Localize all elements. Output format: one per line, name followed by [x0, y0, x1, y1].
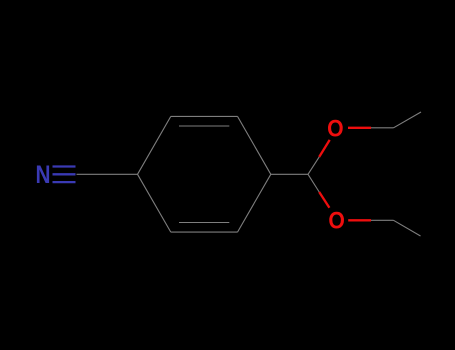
bond CH to top O (gray half): [308, 157, 319, 174]
svg-text:O: O: [327, 116, 344, 143]
ring edge C1-C2 upper-left: [138, 116, 171, 174]
bond bottom CH2 to CH3: [394, 220, 421, 236]
aromatic inner line bottom: [179, 222, 229, 224]
aromatic inner line top: [179, 125, 229, 127]
svg-text:N: N: [36, 161, 51, 189]
bond top O to CH2 (red half): [348, 127, 371, 129]
svg-text:O: O: [328, 208, 345, 235]
ring edge C3-C4 upper-right: [238, 116, 271, 174]
ring edge C4-C5 lower-right: [238, 174, 271, 232]
bond CH to top O (red half): [319, 140, 330, 157]
bond top O to CH2 (gray half): [371, 127, 394, 129]
bond nitrile C to ring C1: [77, 173, 138, 175]
bond top CH2 to CH3: [394, 112, 422, 128]
bond ring C4 to acetal CH: [271, 173, 308, 175]
bond bottom O to CH2 (gray half): [371, 219, 394, 221]
bond bottom O to CH2 (red half): [348, 219, 371, 221]
bond CH to bottom O (red half): [319, 192, 329, 208]
ring edge C6-C1 lower-left: [138, 174, 171, 232]
ring edge C2-C3 top: [171, 115, 238, 117]
benzene ring: [138, 116, 271, 232]
bond CH to bottom O (gray half): [308, 174, 319, 192]
ring edge C5-C6 bottom: [171, 231, 238, 233]
nitrile triple bond C#N: [53, 167, 76, 183]
